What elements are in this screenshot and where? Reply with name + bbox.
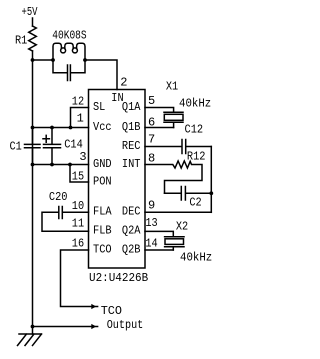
svg-text:Output: Output: [107, 318, 144, 332]
capacitor C20 between FLA FLB: [42, 207, 89, 232]
pin 1 Vcc rail: [33, 127, 89, 129]
svg-text:Q2A: Q2A: [122, 224, 141, 238]
svg-text:R1: R1: [15, 34, 27, 48]
pin 6 stub: [145, 127, 174, 129]
svg-text:C2: C2: [189, 195, 201, 209]
arrow Output: [91, 324, 96, 329]
plus sign of C1: [43, 135, 49, 142]
op IC U2 box: [89, 90, 146, 269]
svg-text:C1: C1: [10, 140, 22, 154]
svg-text:IN: IN: [111, 91, 123, 105]
IN label: [111, 91, 123, 105]
svg-text:3: 3: [79, 150, 86, 164]
svg-text:R12: R12: [187, 150, 206, 164]
svg-text:7: 7: [148, 132, 155, 146]
junction dots on GND rail: [31, 163, 35, 167]
+5V supply label: [22, 5, 39, 19]
wire Output from left rail: [33, 326, 98, 328]
node LC right dot: [83, 58, 87, 62]
svg-text:Q1B: Q1B: [122, 120, 141, 134]
capacitor of 40K08S: [53, 60, 85, 81]
svg-text:40kHz: 40kHz: [179, 96, 211, 110]
IC label U2:U4226B: [89, 271, 148, 285]
junction dots on Vcc rail: [31, 126, 35, 130]
wire R1 to node: [32, 51, 34, 60]
svg-text:+5V: +5V: [22, 5, 39, 19]
svg-text:GND: GND: [93, 157, 112, 171]
resistor R1: [29, 26, 37, 51]
svg-text:Q1A: Q1A: [122, 100, 141, 114]
svg-text:U2:U4226B: U2:U4226B: [89, 271, 148, 285]
svg-text:DEC: DEC: [122, 205, 141, 219]
pin 14 stub: [145, 249, 173, 251]
svg-text:13: 13: [145, 216, 157, 230]
ground: [18, 334, 42, 346]
right rail DEC net: [210, 147, 212, 213]
svg-text:14: 14: [145, 236, 157, 250]
svg-text:6: 6: [148, 116, 155, 130]
svg-text:REC: REC: [122, 139, 141, 153]
svg-text:10: 10: [72, 199, 84, 213]
svg-text:15: 15: [72, 169, 84, 183]
capacitor C2: [165, 187, 212, 201]
svg-text:TCO: TCO: [101, 304, 122, 318]
svg-text:Vcc: Vcc: [93, 120, 112, 134]
svg-text:40K08S: 40K08S: [52, 29, 86, 43]
svg-text:Q2B: Q2B: [122, 242, 141, 256]
svg-text:C20: C20: [49, 190, 68, 204]
pin 12 SL stub: [71, 108, 89, 128]
wire LC to pin 2: [85, 60, 117, 90]
inductor of 40K08S: [53, 43, 61, 60]
svg-text:INT: INT: [122, 157, 141, 171]
node A junction dot: [31, 58, 35, 62]
svg-text:FLB: FLB: [93, 224, 112, 238]
svg-text:X2: X2: [176, 219, 188, 233]
svg-text:2: 2: [120, 75, 127, 89]
svg-text:9: 9: [148, 199, 155, 213]
crystal X2: [165, 237, 184, 250]
pin 9 DEC stub: [145, 211, 211, 213]
wire +5V lead: [32, 18, 34, 26]
pin number 2: [120, 75, 127, 89]
svg-text:40kHz: 40kHz: [180, 250, 212, 264]
crystal X1: [164, 112, 183, 127]
svg-text:C12: C12: [185, 123, 204, 137]
arrow TCO: [91, 304, 96, 309]
GND rail: [33, 164, 89, 166]
pin 13 stub: [145, 231, 173, 236]
svg-text:5: 5: [148, 94, 155, 108]
wire node A to LC tank: [33, 59, 54, 61]
svg-text:SL: SL: [93, 100, 105, 114]
IC pin labels right column: [122, 100, 141, 257]
pin 7 stub with capacitor C12: [145, 140, 211, 154]
pin 16 TCO stub and output wire: [61, 250, 98, 307]
svg-text:16: 16: [72, 236, 84, 250]
svg-text:1: 1: [77, 112, 84, 126]
pin 5 stub: [145, 108, 174, 113]
IC pin labels left column: [93, 100, 112, 257]
svg-text:PON: PON: [93, 174, 112, 188]
capacitor C1: [25, 128, 41, 165]
ceramic filter 40K08S label: [52, 29, 86, 43]
svg-text:TCO: TCO: [93, 242, 112, 256]
svg-text:12: 12: [72, 94, 84, 108]
node LC left dot: [51, 58, 55, 62]
pin 8 stub with resistor R12: [145, 161, 202, 193]
svg-text:8: 8: [148, 151, 155, 165]
wire left rail (node A to ground): [32, 60, 34, 334]
capacitor C14: [44, 128, 61, 165]
svg-text:X1: X1: [166, 80, 178, 94]
svg-text:FLA: FLA: [93, 205, 112, 219]
pin 15 PON stub: [70, 165, 89, 183]
svg-text:11: 11: [72, 216, 84, 230]
